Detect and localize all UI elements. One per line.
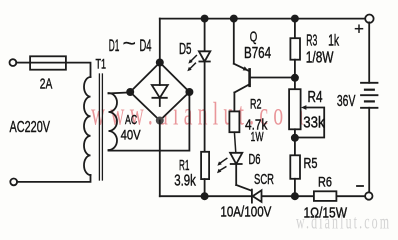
svg-text:D1: D1 xyxy=(109,36,120,55)
node D5 top xyxy=(201,15,209,23)
svg-text:D6: D6 xyxy=(249,151,261,168)
SCR xyxy=(252,190,262,203)
SCR gate wire xyxy=(236,185,251,191)
svg-text:3.9k: 3.9k xyxy=(174,173,196,190)
D6 arrows xyxy=(217,158,227,173)
wire terminal to fuse xyxy=(16,62,30,64)
node bridge top xyxy=(156,59,164,67)
svg-text:D5: D5 xyxy=(179,41,192,58)
svg-text:1W: 1W xyxy=(251,129,264,144)
LED D5 xyxy=(199,19,210,152)
wire bridge top to rail xyxy=(159,19,161,63)
transformer T1 primary winding xyxy=(84,77,91,175)
LED D6 xyxy=(230,153,242,185)
wire secondary bottom to AC node xyxy=(109,92,190,151)
svg-text:1Ω/15W: 1Ω/15W xyxy=(304,205,348,221)
svg-text:B764: B764 xyxy=(244,45,271,62)
svg-text:R2: R2 xyxy=(250,96,262,112)
top rail xyxy=(160,18,366,20)
R4 wiper xyxy=(298,105,324,137)
svg-text:R6: R6 xyxy=(318,174,332,190)
fuse F 2A xyxy=(30,56,66,69)
svg-text:AC: AC xyxy=(125,112,137,127)
battery 36V xyxy=(361,22,378,192)
label + xyxy=(356,25,363,32)
terminal - xyxy=(365,192,372,199)
transformer secondary winding xyxy=(109,93,118,150)
resistor R2 4.7k 1W xyxy=(229,111,239,132)
svg-text:SCR: SCR xyxy=(254,171,274,188)
svg-text:D4: D4 xyxy=(140,36,152,55)
svg-text:~: ~ xyxy=(123,34,136,55)
bridge inner diode xyxy=(152,63,168,107)
svg-text:2A: 2A xyxy=(40,75,53,92)
resistor R3 1k 1/8W xyxy=(294,19,296,39)
node base/R3/R4 xyxy=(291,74,299,82)
wire fuse to transformer primary xyxy=(66,63,91,77)
terminal + xyxy=(365,15,373,23)
bottom rail xyxy=(160,195,252,197)
svg-text:1/8W: 1/8W xyxy=(306,50,334,67)
svg-text:33k: 33k xyxy=(303,114,325,131)
terminal lower left xyxy=(10,179,17,186)
svg-text:R1: R1 xyxy=(179,157,190,174)
terminal upper left xyxy=(10,59,17,66)
transformer core xyxy=(98,74,100,180)
bridge rectifier D1~D4 diamond xyxy=(130,63,189,121)
node bridge bottom xyxy=(156,117,164,125)
potentiometer R4 33k xyxy=(289,89,301,129)
node Q emitter top xyxy=(230,15,238,23)
label minus xyxy=(357,185,363,187)
svg-text:R4: R4 xyxy=(308,89,323,106)
node R4 bottom xyxy=(291,134,299,142)
node R1 bottom xyxy=(201,192,209,200)
node R3 top xyxy=(291,15,299,23)
svg-text:36V: 36V xyxy=(337,93,356,110)
svg-text:Q: Q xyxy=(250,30,257,46)
node bridge left xyxy=(126,88,134,96)
svg-text:R3: R3 xyxy=(306,32,317,49)
svg-text:T1: T1 xyxy=(96,57,107,72)
D5 arrows xyxy=(187,56,196,72)
svg-text:10A/100V: 10A/100V xyxy=(220,204,271,221)
transistor Q B764 xyxy=(234,19,295,112)
wire lower terminal to primary xyxy=(17,175,90,182)
svg-text:1k: 1k xyxy=(328,33,339,50)
wire bridge bottom to bottom rail xyxy=(159,121,161,197)
node bridge right xyxy=(185,88,193,96)
resistor R5 xyxy=(290,155,300,179)
wire secondary top to bridge left vertex xyxy=(109,92,131,93)
svg-text:R5: R5 xyxy=(304,156,318,172)
svg-text:AC220V: AC220V xyxy=(10,119,51,136)
resistor R6 xyxy=(314,191,337,201)
svg-text:40V: 40V xyxy=(121,127,142,143)
node R5 bottom xyxy=(291,192,299,200)
resistor R1 3.9k xyxy=(201,152,209,179)
